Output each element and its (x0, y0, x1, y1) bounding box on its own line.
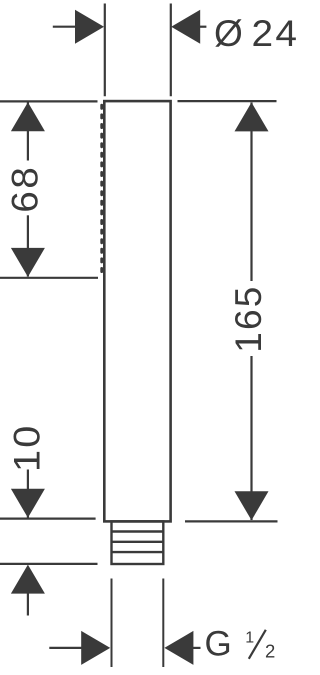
svg-text:2: 2 (265, 640, 275, 661)
svg-text:10: 10 (7, 423, 49, 472)
svg-text:Ø: Ø (214, 13, 243, 54)
svg-text:1: 1 (245, 629, 254, 646)
svg-text:24: 24 (252, 14, 300, 55)
svg-text:68: 68 (5, 165, 46, 213)
svg-text:G: G (205, 624, 232, 663)
svg-text:165: 165 (228, 284, 269, 352)
